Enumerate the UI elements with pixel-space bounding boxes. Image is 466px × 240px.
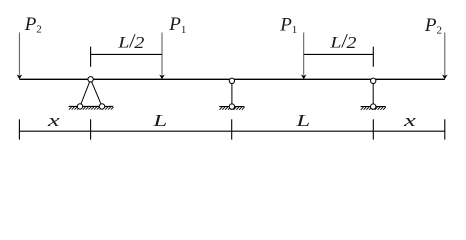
support B link [219,78,244,110]
load arrow P2 left [17,33,23,80]
svg-text:P1: P1 [168,14,186,36]
label L/2 left [117,33,144,52]
svg-text:P1: P1 [279,14,297,36]
load arrow P1 right [301,33,307,80]
support C link [361,78,386,110]
beam [19,78,444,80]
load arrow P2 right [442,33,448,80]
label L/2 right [329,33,356,52]
svg-text:P2: P2 [24,14,42,36]
svg-text:2: 2 [134,34,144,52]
svg-text:L: L [329,33,341,50]
svg-text:x: x [47,111,60,130]
dimension line L/2 right [304,47,374,67]
svg-text:P2: P2 [424,15,442,37]
svg-text:L: L [295,111,310,130]
bottom dimension line [19,119,444,139]
svg-text:x: x [403,111,416,130]
dimension line L/2 left [91,47,162,67]
svg-text:L: L [152,111,167,130]
support A pin triangle [69,77,114,110]
svg-text:L: L [117,33,129,50]
svg-text:2: 2 [347,34,357,52]
load arrow P1 left [159,33,165,80]
